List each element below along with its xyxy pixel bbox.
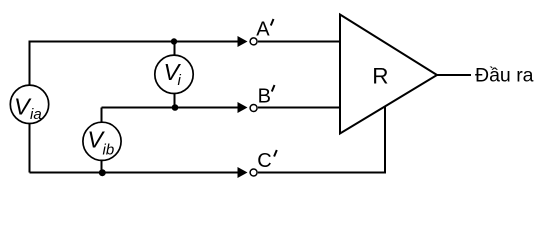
svg-text:Đầu ra: Đầu ra: [475, 65, 534, 87]
svg-text:B: B: [258, 85, 271, 107]
svg-text:ia: ia: [30, 106, 42, 123]
svg-text:A: A: [256, 19, 270, 41]
svg-text:C: C: [257, 150, 271, 172]
svg-text:R: R: [372, 64, 388, 89]
svg-text:ib: ib: [103, 141, 115, 158]
